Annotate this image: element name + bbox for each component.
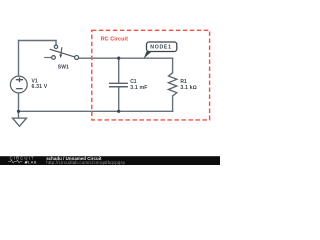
label V1 value <box>32 78 48 90</box>
wire R1 bottom lead <box>172 96 174 111</box>
switch arrow <box>59 47 62 58</box>
capacitor C1 <box>109 83 128 86</box>
junction top rail / C1 <box>117 57 120 60</box>
svg-text:6.31 V: 6.31 V <box>32 84 48 90</box>
switch right throw terminal <box>75 56 79 60</box>
svg-text:3.1 mF: 3.1 mF <box>130 85 147 91</box>
label C1 value <box>130 79 147 91</box>
switch common terminal <box>54 45 57 48</box>
ground <box>13 118 27 126</box>
CircuitLab logo <box>8 156 37 165</box>
svg-text:http://circuitlab.com/c/cmrqsl: http://circuitlab.com/c/cmrqslbqcpqsy <box>46 160 126 165</box>
svg-text:LAB: LAB <box>28 159 37 164</box>
wire V1 bottom lead <box>18 93 20 118</box>
junction bottom rail / C1 <box>117 110 120 113</box>
switch left stub <box>44 57 51 59</box>
wire bottom rail <box>19 110 173 112</box>
svg-text:SW1: SW1 <box>58 64 69 70</box>
switch left throw terminal <box>52 56 56 60</box>
voltage source V1 <box>10 76 27 93</box>
junction bottom rail / ground <box>17 110 20 113</box>
label R1 value <box>180 79 196 91</box>
svg-text:NODE1: NODE1 <box>150 45 171 51</box>
footer bar <box>0 156 220 165</box>
wire V1 top lead <box>18 41 20 77</box>
svg-text:3.1 kΩ: 3.1 kΩ <box>180 85 196 91</box>
node NODE1 flag <box>144 42 177 59</box>
wire switch stub <box>55 41 57 46</box>
svg-text:RC Circuit: RC Circuit <box>101 37 128 43</box>
wire R1 top lead <box>172 58 174 73</box>
switch SW1 <box>44 45 78 59</box>
wire C1 bottom lead <box>118 87 120 112</box>
wire C1 top lead <box>118 58 120 83</box>
resistor R1 <box>168 73 176 96</box>
wire top rail <box>79 57 173 59</box>
RC Circuit dashed box <box>92 30 210 120</box>
wire top horizontal <box>19 40 57 42</box>
switch blade <box>50 49 75 57</box>
